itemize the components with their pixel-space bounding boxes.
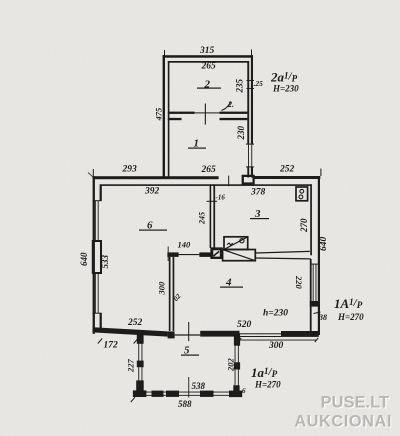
annex right wall window glazing	[250, 144, 253, 167]
svg-text:6: 6	[242, 387, 246, 395]
svg-text:245: 245	[198, 212, 207, 225]
annex window tick bottom	[246, 166, 254, 167]
stove upper circle	[240, 239, 244, 243]
room 5 underline	[181, 355, 199, 356]
veranda bottom post3	[200, 391, 214, 397]
rooms 6-3 divider tick	[207, 201, 218, 202]
svg-text:588: 588	[178, 399, 192, 409]
room4 left wall	[169, 257, 171, 331]
dim tick 315 right	[251, 50, 252, 56]
annex left wall inner	[168, 61, 170, 177]
annex top wall inner	[168, 61, 249, 63]
room 4 underline	[220, 287, 243, 288]
rooms 6-3 divider wall	[210, 184, 212, 248]
room6 bottom wall (slanted)	[93, 327, 168, 336]
svg-text:293: 293	[122, 165, 138, 175]
left wall window box	[92, 240, 102, 274]
svg-text:300: 300	[157, 281, 167, 296]
dim tick .25 lower	[247, 87, 255, 90]
veranda bottom post1	[152, 391, 164, 397]
svg-text:220: 220	[294, 275, 304, 290]
dim tick 538	[187, 377, 190, 398]
rooms 1-2 divider wall upper line right	[220, 112, 248, 114]
rooms 1-2 divider door sill	[195, 112, 220, 113]
svg-text:265: 265	[201, 62, 217, 72]
flue black box	[210, 247, 222, 259]
annex left wall outer	[163, 55, 165, 178]
room 2 underline	[197, 88, 221, 89]
stove upper squiggle	[227, 243, 233, 245]
veranda bottom corner right	[229, 391, 242, 398]
dim line 300 bottom	[240, 339, 317, 342]
veranda right wall glazing	[234, 334, 237, 390]
svg-text:252: 252	[127, 318, 143, 328]
svg-text:538: 538	[192, 381, 206, 391]
veranda right wall bottom block	[233, 385, 239, 396]
dim 300 tick right	[315, 338, 318, 342]
veranda door tick	[188, 322, 189, 341]
veranda right wall mid block	[234, 362, 240, 369]
svg-text:270: 270	[299, 218, 309, 233]
main left wall inner upper block	[100, 184, 102, 201]
veranda bottom wall corner foot left	[133, 390, 147, 397]
room6 bottom wall corner block	[168, 331, 175, 338]
corner stove room3 outline	[296, 187, 308, 201]
svg-text:235: 235	[235, 79, 245, 94]
svg-text:140: 140	[178, 240, 192, 250]
svg-text:227: 227	[126, 359, 136, 374]
opening 140 sill	[179, 254, 200, 255]
svg-text:AUKCIONAI: AUKCIONAI	[294, 413, 392, 431]
svg-text:475: 475	[154, 107, 164, 122]
room 1 underline	[188, 148, 206, 149]
svg-text:h=230: h=230	[263, 309, 288, 319]
dim tick 172 left	[98, 339, 102, 344]
main left wall outer	[93, 176, 95, 334]
svg-text:640: 640	[319, 237, 329, 252]
dim tick 588 left	[131, 397, 135, 402]
room4 right window glazing	[312, 264, 315, 301]
left wall tick y313	[93, 313, 102, 314]
svg-text:-16: -16	[216, 194, 226, 202]
svg-text:H=270: H=270	[337, 312, 364, 322]
veranda right wall top block	[234, 334, 240, 346]
svg-text:H=230: H=230	[272, 84, 299, 94]
corner stove circle lower	[299, 195, 303, 199]
veranda door sill	[175, 334, 201, 335]
corner stove circle upper	[300, 189, 304, 193]
room3 right wall inner	[310, 184, 312, 255]
wall segment 140 left	[167, 252, 178, 257]
stove lower outline	[223, 250, 256, 261]
rooms 3-4 divider upper line	[255, 251, 309, 253]
rooms 1-2 divider wall lower line right	[220, 118, 248, 120]
flue inner mark	[214, 251, 220, 256]
main top wall outer left segment	[93, 176, 219, 179]
door arc room2	[222, 102, 231, 111]
svg-text:265: 265	[201, 165, 217, 175]
svg-text:2.: 2.	[227, 100, 234, 109]
annex window tick top	[246, 144, 254, 145]
svg-text:H=270: H=270	[254, 380, 281, 390]
svg-text:520: 520	[237, 320, 252, 330]
annex right wall inner upper	[247, 61, 249, 144]
dim tick 172 right	[134, 339, 138, 344]
dim tick top left corner	[93, 169, 94, 176]
veranda left wall glazing	[137, 335, 140, 386]
svg-text:230: 230	[236, 126, 246, 141]
svg-text:315: 315	[199, 46, 215, 56]
main top wall outer right segment	[254, 176, 320, 179]
svg-text:378: 378	[250, 188, 266, 198]
left wall tick y200	[93, 200, 102, 201]
svg-text:533: 533	[100, 255, 110, 269]
door jamb block	[242, 175, 255, 185]
veranda bottom post2	[166, 391, 179, 397]
rooms 1-2 divider wall upper line left	[168, 112, 195, 114]
main right wall outer	[318, 176, 320, 335]
room4 right window tick	[310, 264, 319, 265]
svg-text:300: 300	[268, 341, 284, 351]
room 6 underline	[139, 230, 167, 231]
dim tick .25 upper	[247, 79, 255, 82]
dim tick 315 left	[164, 50, 165, 56]
veranda left wall mid block	[137, 361, 144, 368]
room 3 underline	[250, 218, 269, 219]
annex right wall outer upper	[251, 55, 253, 144]
wall segment 140 right	[199, 252, 210, 257]
veranda bottom glazing	[146, 391, 230, 394]
rooms 3-4 divider lower line	[255, 257, 310, 260]
room4 right wall block 38	[310, 301, 320, 307]
room4 right wall inner	[310, 259, 312, 331]
svg-text:640: 640	[79, 252, 89, 266]
svg-text:202: 202	[226, 358, 236, 373]
annex right wall outer lower	[251, 167, 253, 178]
main left wall inner lower block	[100, 313, 102, 329]
main top wall inner line	[102, 184, 312, 186]
tick 140	[167, 247, 170, 262]
svg-text:.25: .25	[254, 79, 264, 88]
veranda left wall bottom corner block	[136, 380, 144, 390]
svg-text:172: 172	[104, 341, 119, 351]
rooms 1-2 divider wall lower line left	[168, 118, 182, 120]
room4 bottom wall left segment	[200, 331, 239, 337]
svg-text:252: 252	[279, 165, 295, 175]
door room1-room3 tick	[228, 176, 229, 187]
svg-text:392: 392	[144, 187, 160, 197]
left wall window2 glazing	[94, 274, 97, 313]
svg-text:PUSE.LT: PUSE.LT	[321, 394, 389, 412]
divider door tick	[205, 104, 206, 125]
dim tick 38	[314, 312, 321, 314]
room4 bottom wall right segment	[281, 331, 319, 337]
stove upper diagonal	[224, 237, 248, 250]
stove lower diagonal	[223, 250, 256, 261]
corner flick top-left	[88, 173, 94, 178]
svg-text:38: 38	[318, 313, 327, 322]
stove upper outline	[224, 237, 248, 250]
annex top wall outer	[163, 55, 253, 58]
dimension and room texts	[79, 46, 364, 409]
veranda left wall top block	[137, 335, 144, 344]
left wall window1 glazing	[94, 201, 97, 241]
dim 300 tick left	[238, 338, 241, 342]
annex right wall inner lower	[247, 167, 249, 178]
dim tick top right corner	[320, 169, 321, 177]
room4 bottom window glazing	[240, 333, 282, 334]
